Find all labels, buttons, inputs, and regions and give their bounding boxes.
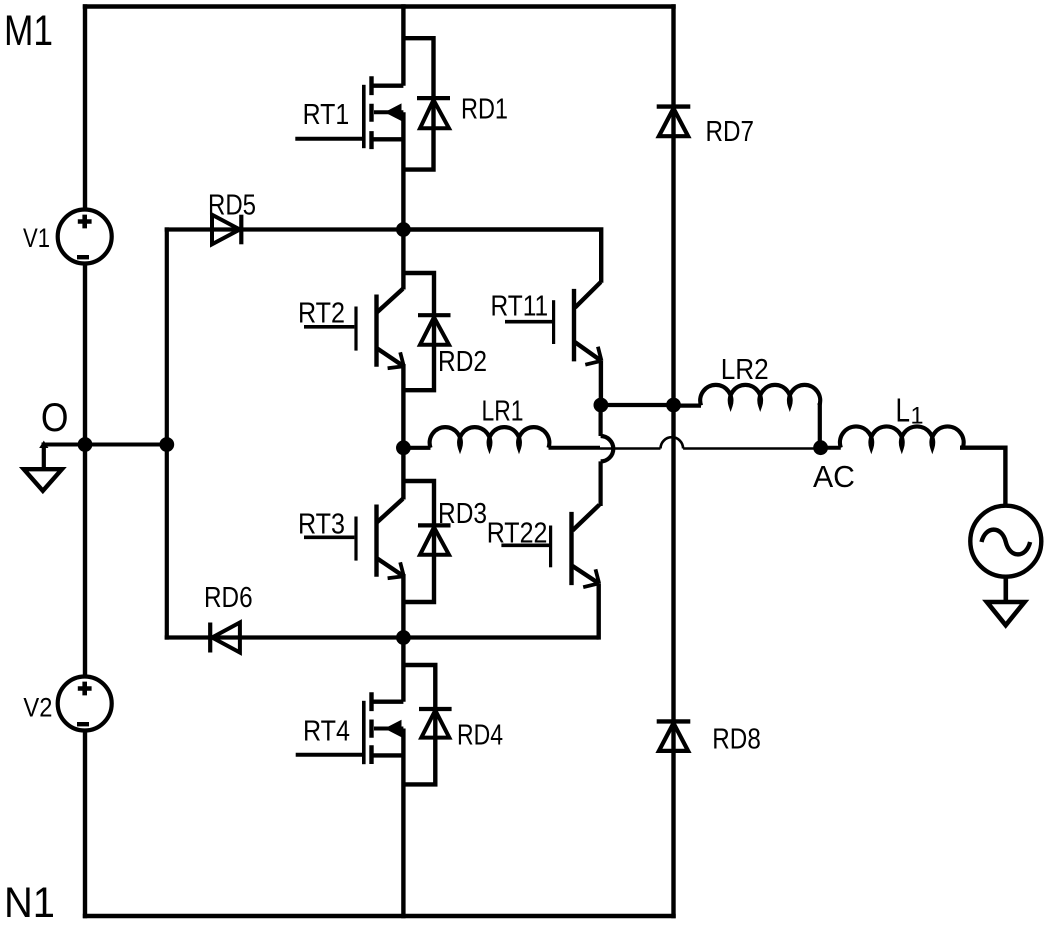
node dot center column at RD6 row bbox=[396, 630, 411, 645]
wire RT11 emitter row bbox=[601, 403, 674, 407]
svg-text:RD5: RD5 bbox=[208, 190, 256, 222]
wire right rail tap to LR2 coil bbox=[674, 404, 702, 408]
wire center column RT4 source to bottom rail bbox=[401, 729, 405, 919]
inductor LR2 bbox=[700, 385, 820, 406]
wire left rail upper (top rail to V1) bbox=[83, 4, 87, 210]
wire L1 coil to AC source bbox=[960, 448, 1005, 506]
wire O node row bbox=[42, 443, 167, 447]
voltage source V2 bbox=[58, 677, 112, 731]
diode RD8 on right rail bbox=[657, 721, 691, 751]
wire center column RT2 emitter to LR1 node bbox=[401, 364, 405, 449]
node dot center column at RD5 row bbox=[396, 222, 411, 237]
diode RD3 (antiparallel with RT3) bbox=[403, 481, 450, 602]
wire LR1 coil to RT22 column hop bbox=[549, 446, 601, 450]
node dot AC bbox=[813, 440, 828, 455]
node dot right rail output tap bbox=[666, 398, 681, 413]
svg-text:O: O bbox=[41, 396, 69, 440]
wire RD5 row bbox=[165, 227, 404, 231]
wire hop of RT22 column over output row bbox=[601, 436, 614, 461]
svg-text:RD7: RD7 bbox=[706, 116, 755, 148]
wire bottom rail (N1 bus) bbox=[83, 914, 676, 918]
node dot RT11 emitter bbox=[594, 398, 609, 413]
svg-text:RD4: RD4 bbox=[457, 720, 503, 752]
svg-text:AC: AC bbox=[813, 459, 855, 494]
wire output row between hops bbox=[600, 447, 661, 449]
svg-text:RD3: RD3 bbox=[438, 498, 487, 530]
node dot O on left rail bbox=[78, 437, 93, 452]
wire center column top rail to RT1 drain bbox=[401, 4, 405, 85]
wire right rail bbox=[671, 4, 675, 918]
wire center column RD6 node to RT4 drain bbox=[401, 635, 405, 702]
wire RD6 row bbox=[165, 635, 599, 639]
svg-text:RD6: RD6 bbox=[204, 582, 253, 614]
node dot clamp branch at O row bbox=[159, 437, 174, 452]
wire top rail (M1 bus) bbox=[83, 4, 676, 8]
svg-text:RT2: RT2 bbox=[298, 298, 345, 330]
wire left rail middle (V1 to V2) bbox=[83, 264, 87, 678]
wire LR2 down to AC node bbox=[818, 403, 822, 448]
svg-text:RD8: RD8 bbox=[712, 724, 761, 756]
diode RD5 bbox=[212, 215, 241, 245]
svg-text:RD1: RD1 bbox=[461, 94, 508, 126]
svg-text:RT4: RT4 bbox=[303, 716, 350, 748]
voltage source V1 bbox=[58, 210, 112, 264]
transistor RT2 (IGBT) bbox=[304, 289, 404, 368]
svg-text:RT3: RT3 bbox=[298, 509, 345, 541]
wire RD5 node to RT11 collector bbox=[401, 230, 601, 283]
wire AC source to ground bbox=[1003, 577, 1008, 603]
wire LR1 node to coil bbox=[403, 446, 430, 450]
diode RD4 (antiparallel with RT4) bbox=[403, 665, 451, 784]
transistor RT3 (IGBT) bbox=[304, 499, 404, 578]
ground at node O bbox=[24, 441, 62, 491]
label L1 bbox=[896, 392, 924, 430]
wire RT11 emitter node down to hop bbox=[598, 404, 602, 436]
transistor RT11 (IGBT) bbox=[505, 282, 602, 406]
wire center column RT3 emitter to RD6 node bbox=[401, 574, 405, 639]
AC source bbox=[970, 506, 1041, 577]
wire center column RT1 source to RD5 node bbox=[401, 112, 405, 231]
diode RD1 (antiparallel with RT1) bbox=[403, 38, 450, 169]
node dot center column at LR1 row bbox=[396, 440, 411, 455]
wire clamp branch vertical bbox=[165, 227, 169, 639]
svg-text:M1: M1 bbox=[4, 8, 53, 55]
transistor RT22 (IGBT) bbox=[501, 505, 599, 640]
svg-text:V2: V2 bbox=[23, 693, 52, 723]
svg-text:LR1: LR1 bbox=[482, 396, 524, 428]
wire center column RD5 node to RT2 collector bbox=[401, 228, 405, 290]
svg-text:L: L bbox=[896, 392, 911, 429]
svg-text:RT11: RT11 bbox=[491, 291, 549, 323]
wire left rail lower (V2 to bottom rail) bbox=[83, 731, 87, 919]
svg-text:LR2: LR2 bbox=[721, 354, 769, 386]
svg-text:1: 1 bbox=[911, 403, 924, 430]
wire AC node to L1 coil bbox=[821, 446, 841, 450]
diode RD7 on right rail bbox=[657, 107, 691, 137]
svg-text:RT1: RT1 bbox=[303, 99, 350, 131]
inductor LR1 bbox=[430, 427, 550, 448]
transistor RT1 (MOSFET) bbox=[295, 76, 403, 149]
diode RD6 bbox=[210, 623, 240, 653]
svg-text:V1: V1 bbox=[23, 223, 50, 253]
wire output row hop to AC node bbox=[683, 447, 820, 449]
ground at AC source bbox=[987, 602, 1025, 625]
svg-text:N1: N1 bbox=[4, 880, 55, 927]
inductor L1 bbox=[840, 426, 964, 447]
wire hop of output row over right rail bbox=[661, 437, 684, 448]
diode RD2 (antiparallel with RT2) bbox=[403, 273, 450, 390]
wire center column LR1 node to RT3 collector bbox=[401, 446, 405, 500]
svg-text:RD2: RD2 bbox=[438, 346, 487, 378]
transistor RT4 (MOSFET) bbox=[296, 692, 404, 764]
svg-text:RT22: RT22 bbox=[487, 518, 548, 550]
wire hop to RT22 collector bbox=[598, 461, 602, 506]
